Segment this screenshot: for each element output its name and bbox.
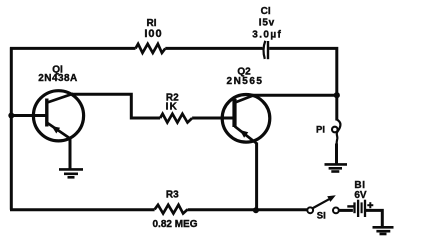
resistor R2 [160,114,192,123]
transistor Q2 base bar [232,99,236,127]
svg-text:2N438A: 2N438A [38,73,77,84]
svg-text:0.82 MEG: 0.82 MEG [152,219,197,230]
transistor Q1 emitter arrow [52,126,61,134]
wire: top rail right segment and right vertical drop [269,48,337,120]
wire: Q1 collector to R2 corner [71,94,160,118]
transistor Q2 collector line [235,95,254,103]
battery B1 plus sign [367,202,373,208]
battery B1 plate short 2 [361,202,363,213]
transistor Q1 base bar [45,99,48,127]
wire: top rail middle segment [165,47,262,50]
transistor Q2 emitter arrow [240,130,249,138]
wire: left vertical bus [10,47,13,210]
svg-text:PI: PI [316,124,325,135]
wire: top rail left segment [10,47,136,50]
svg-text:R3: R3 [166,190,179,201]
switch S1 right contact [333,208,339,214]
battery B1 plate short 1 [353,202,355,213]
svg-text:IK: IK [166,102,178,113]
capacitor C1 curved plate [264,41,266,59]
wire: Q2 collector to right rail [252,94,337,97]
svg-text:6V: 6V [354,190,367,201]
resistor R3 [155,205,188,214]
wire: switch to battery [339,209,353,212]
switch S1 left contact [307,207,313,213]
node: junction dot right rail [334,92,340,98]
svg-text:CI: CI [261,6,271,17]
transistor Q2 emitter line [235,126,257,143]
wire: bottom rail left segment [10,208,155,211]
jack P1 loop circle [332,127,338,133]
wire: Q1 base wire [11,114,45,117]
wire: R2 to Q2 base [192,117,233,120]
switch S1 arm arrowhead [327,195,336,202]
ground (below B1) [373,227,394,234]
switch S1 arm [313,199,330,208]
transistor Q1 collector line [47,94,73,103]
svg-text:3.0µf: 3.0µf [252,30,282,41]
svg-text:I5v: I5v [259,18,275,29]
wire: Q2 emitter drop to bottom rail [255,143,258,211]
svg-text:SI: SI [317,211,326,222]
node: junction dot left bus [8,113,14,119]
jack P1 pigtail [337,120,341,144]
resistor R1 [136,44,166,53]
transistor Q1 circle [33,91,83,141]
wire: Q1 emitter to ground [69,138,72,170]
battery B1 plate long 1 [357,200,359,217]
wire: battery to ground corner [365,210,382,227]
ground (below P1) [325,164,348,171]
transistor Q2 circle [222,95,270,143]
wire: bottom rail to switch [188,208,308,211]
battery B1 plate long 2 [364,200,366,217]
transistor Q1 emitter line [47,123,70,139]
svg-text:I00: I00 [144,28,162,40]
capacitor C1 straight plate [267,41,269,59]
node: junction dot bottom rail [253,207,259,213]
battery B1 minus dash [347,205,354,207]
svg-text:2N565: 2N565 [227,76,264,87]
wire: P1 to ground [335,144,338,165]
ground (below Q1) [59,169,83,177]
